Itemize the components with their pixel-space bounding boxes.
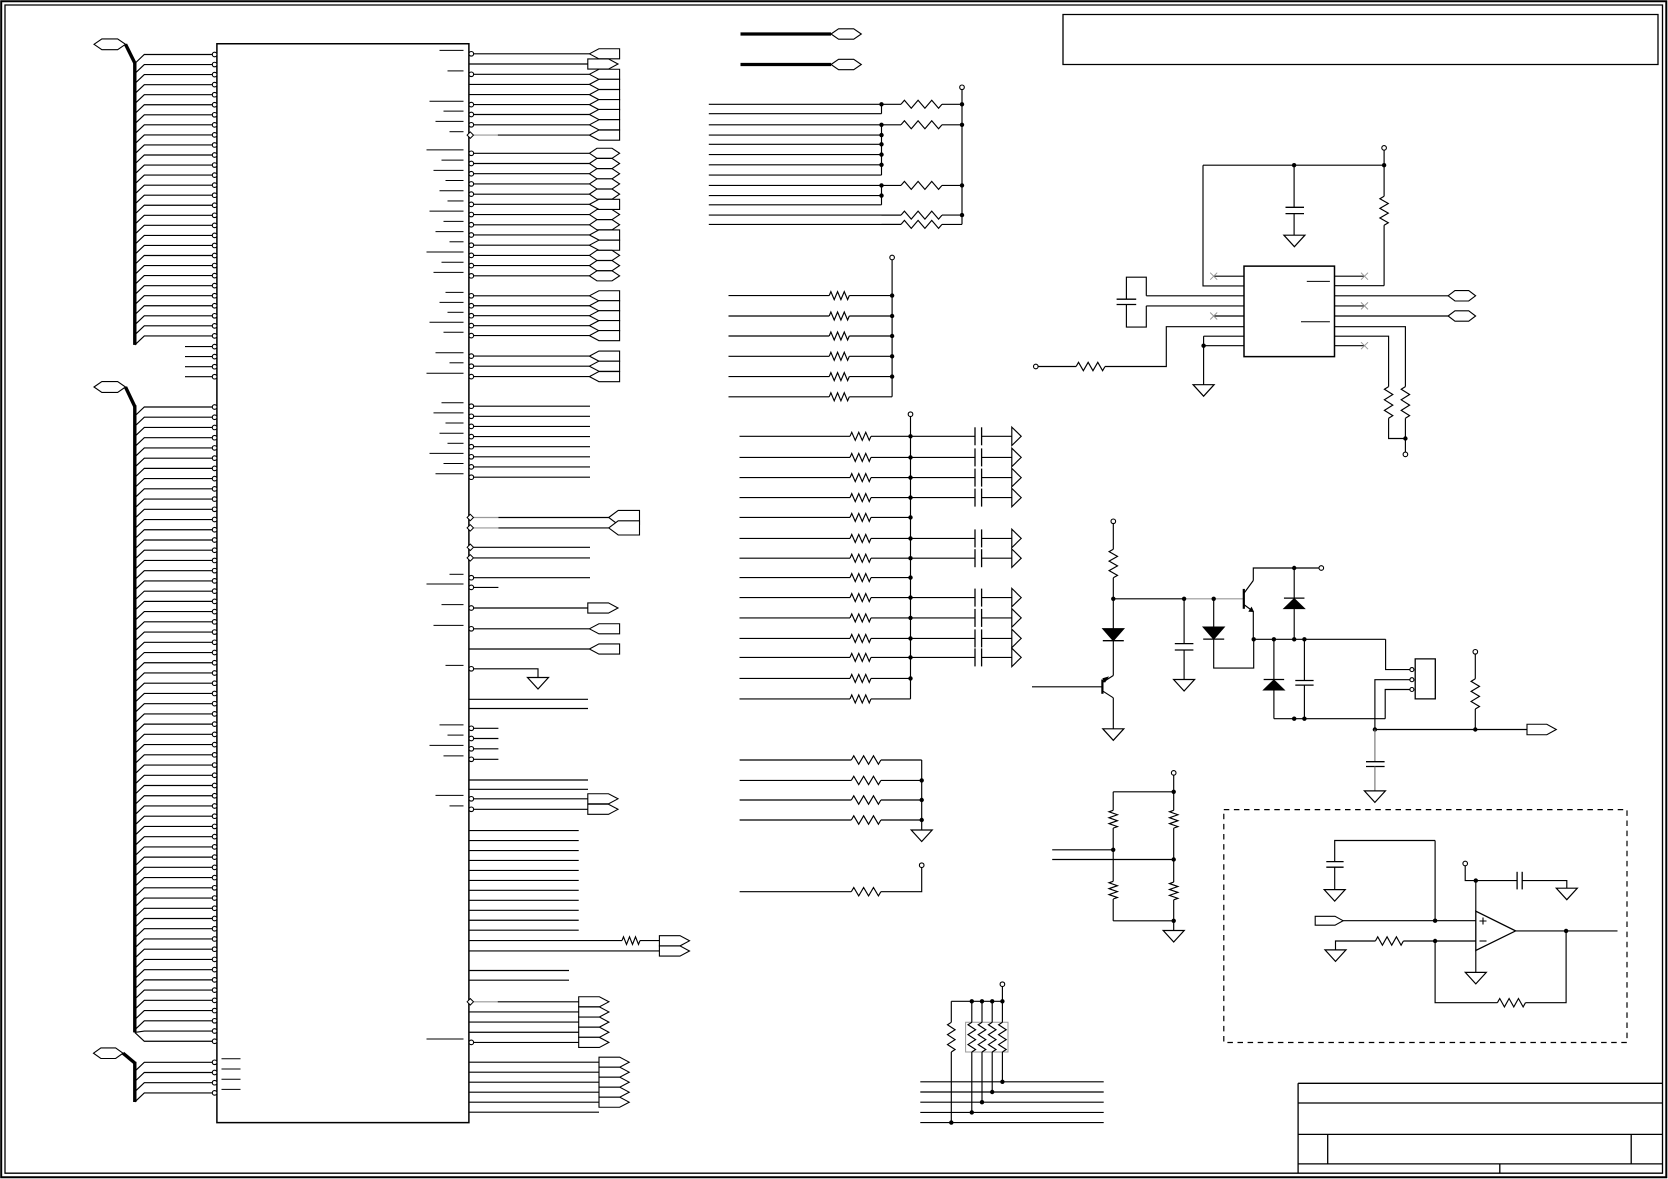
pin stub inner U2 bbox=[1301, 321, 1330, 323]
pin stub nc bbox=[1214, 315, 1244, 317]
bus flag bbox=[1448, 311, 1476, 321]
pin label stub bbox=[446, 664, 464, 666]
wire pin out bbox=[474, 415, 590, 417]
pin label stub bbox=[427, 251, 464, 253]
opto pin1 bbox=[1410, 668, 1414, 672]
junction bbox=[879, 152, 883, 156]
signal flag bbox=[589, 240, 619, 250]
wire bbox=[849, 355, 892, 357]
wire bbox=[982, 597, 1012, 599]
wire pin bbox=[135, 653, 213, 662]
bottom rail bbox=[1274, 718, 1385, 720]
signal flag bbox=[589, 179, 619, 189]
junction bbox=[890, 293, 894, 297]
junction bbox=[1111, 597, 1115, 601]
wire pin bbox=[135, 612, 213, 621]
resistor bbox=[851, 816, 881, 824]
wire bbox=[740, 656, 851, 658]
pin label stub bbox=[436, 231, 464, 233]
opto pin3 bbox=[1410, 688, 1414, 692]
bus flag bbox=[1448, 291, 1476, 301]
node wire bbox=[1113, 598, 1184, 600]
wire pin bbox=[135, 266, 213, 275]
wire bbox=[709, 195, 882, 197]
wire pin out bbox=[469, 919, 579, 921]
signal flag bbox=[589, 109, 619, 119]
wire pin out bbox=[474, 355, 590, 357]
wire pin bbox=[135, 734, 213, 743]
terminal bbox=[1111, 519, 1116, 524]
ground bbox=[1284, 235, 1305, 247]
junction bbox=[879, 193, 883, 197]
junction bbox=[1292, 163, 1296, 167]
wire bbox=[1293, 165, 1295, 207]
wire pin out bbox=[474, 244, 590, 246]
wire pin out bbox=[469, 1061, 599, 1063]
wire pin out bbox=[469, 1091, 599, 1093]
wire pin bbox=[135, 632, 213, 641]
pin label stub bbox=[430, 321, 464, 323]
rail bbox=[910, 416, 912, 699]
pin stub inner bbox=[222, 1058, 241, 1060]
wire pin out bbox=[474, 265, 590, 267]
wire pin out resistor R20 bbox=[469, 940, 622, 942]
wire pin out bbox=[474, 607, 588, 609]
signal flag bbox=[589, 199, 619, 209]
signal flag out bbox=[579, 997, 609, 1007]
pin label stub bbox=[427, 583, 464, 585]
junction bbox=[970, 999, 974, 1003]
node wire gray bbox=[1184, 598, 1244, 600]
signal flag bbox=[589, 250, 619, 260]
wire bbox=[1335, 285, 1385, 287]
wire pin out bbox=[474, 325, 590, 327]
wire bbox=[920, 1081, 1103, 1083]
wire bbox=[1475, 951, 1477, 973]
wire pin bbox=[135, 581, 213, 590]
bus B bbox=[133, 405, 136, 1032]
arrow terminator bbox=[1012, 588, 1021, 606]
wire pin out bbox=[469, 648, 590, 650]
ground bbox=[1465, 972, 1486, 984]
arrow terminator bbox=[1012, 609, 1021, 627]
bus flag bbox=[609, 521, 640, 535]
signal flag bbox=[589, 624, 619, 634]
ground bbox=[1163, 931, 1184, 943]
pin label stub bbox=[446, 180, 464, 182]
resistor bbox=[850, 574, 871, 582]
wire pin bbox=[135, 276, 213, 285]
capacitor C2 bbox=[1183, 599, 1185, 644]
wire bbox=[709, 103, 882, 105]
wire bbox=[740, 779, 852, 781]
wire pin bbox=[135, 816, 213, 825]
resistor discrete bbox=[950, 1001, 952, 1022]
wire pin bbox=[135, 125, 213, 134]
pin label stub bbox=[434, 169, 464, 171]
pin label stub bbox=[430, 100, 464, 102]
wire pin bbox=[135, 714, 213, 723]
node wire bbox=[1254, 638, 1386, 640]
wire bbox=[982, 537, 1012, 539]
wire pin out bbox=[474, 436, 590, 438]
wire pin bbox=[135, 745, 213, 754]
wire pin bbox=[135, 806, 213, 815]
junction bbox=[1433, 919, 1437, 923]
pin stub nc bbox=[1335, 345, 1365, 347]
wire bbox=[1476, 880, 1517, 882]
pin label stub bbox=[436, 473, 464, 475]
wire pin bbox=[135, 1032, 213, 1041]
wire pin out bbox=[474, 456, 590, 458]
terminal bbox=[1171, 771, 1176, 776]
resistor R11 bbox=[1375, 937, 1403, 945]
wire pin bbox=[135, 878, 213, 887]
junction bbox=[980, 1100, 984, 1104]
wire bbox=[1203, 346, 1205, 385]
wire bbox=[920, 1111, 1103, 1113]
wire bbox=[709, 184, 882, 186]
signal flag bbox=[589, 49, 619, 59]
wire bbox=[1173, 775, 1175, 792]
wire bbox=[1293, 214, 1295, 236]
junction bbox=[1403, 436, 1407, 440]
wire bbox=[729, 295, 830, 297]
pin label stub bbox=[450, 241, 464, 243]
resistor bbox=[991, 1001, 993, 1022]
wire pin bbox=[1204, 345, 1244, 347]
junction bbox=[908, 536, 912, 540]
wire pin bbox=[135, 75, 213, 84]
no-connect X bbox=[1210, 273, 1217, 280]
resistor bbox=[850, 474, 871, 482]
resistor bbox=[850, 554, 871, 562]
wire pin out bbox=[469, 1081, 599, 1083]
bus A entry bbox=[126, 44, 135, 63]
wire pin bbox=[135, 642, 213, 651]
wire pin out bbox=[474, 628, 590, 630]
wire bbox=[849, 335, 892, 337]
wire pin bbox=[135, 970, 213, 979]
wire pin bbox=[135, 55, 213, 64]
junction bbox=[908, 636, 912, 640]
wire pin out bbox=[474, 365, 590, 367]
wire pin out bbox=[474, 203, 590, 205]
signal flag out bbox=[579, 1007, 609, 1017]
junction bbox=[1564, 929, 1568, 933]
signal flag bbox=[589, 361, 619, 371]
wire inv bbox=[1336, 941, 1376, 950]
wire pin out bbox=[474, 727, 499, 729]
signal flag bbox=[589, 220, 619, 230]
wire pin bbox=[135, 704, 213, 713]
wire pin bbox=[135, 591, 213, 600]
wire pin bbox=[135, 990, 213, 999]
wire bbox=[729, 396, 830, 398]
capacitor C6 bbox=[1516, 872, 1518, 890]
wire pin out bbox=[469, 1011, 579, 1013]
wire pin out bbox=[474, 798, 588, 800]
resistor R8 bbox=[1112, 850, 1114, 882]
resistor pack box bbox=[966, 1022, 1008, 1052]
pin label stub bbox=[448, 200, 464, 202]
wire bbox=[911, 597, 976, 599]
wire pin bbox=[135, 489, 213, 498]
wire bbox=[709, 174, 882, 176]
wire pin bbox=[135, 939, 213, 948]
wire pin bbox=[135, 775, 213, 784]
resistor bbox=[882, 184, 902, 186]
wire pin bbox=[135, 949, 213, 958]
wire pin bbox=[135, 215, 213, 224]
wire pin out bbox=[474, 586, 499, 588]
capacitor C5 bbox=[1335, 841, 1435, 862]
signal flag in bbox=[1315, 916, 1343, 925]
junction bus segment bbox=[881, 104, 883, 113]
wire pin bbox=[135, 1011, 213, 1020]
junction bbox=[1272, 637, 1276, 641]
resistor R9 bbox=[1173, 792, 1175, 811]
junction bbox=[879, 163, 883, 167]
signal flag bbox=[589, 351, 619, 361]
wire pin bbox=[135, 205, 213, 214]
wire bbox=[982, 557, 1012, 559]
no-connect X bbox=[1361, 302, 1368, 309]
pin label stub bbox=[434, 624, 464, 626]
wire pin bbox=[135, 427, 213, 436]
wire pin bbox=[135, 1000, 213, 1009]
wire pin out bbox=[469, 779, 588, 781]
wire pin out bbox=[474, 466, 590, 468]
pin label stub bbox=[440, 49, 464, 51]
wire pin out bbox=[474, 224, 590, 226]
wire pin out bbox=[469, 1021, 579, 1023]
no-connect X bbox=[1210, 313, 1217, 320]
wire bbox=[709, 214, 901, 216]
resistor bbox=[850, 453, 871, 461]
wire bbox=[729, 335, 830, 337]
junction bbox=[949, 1120, 953, 1124]
wire bbox=[871, 477, 911, 479]
pullup rail bbox=[891, 260, 893, 397]
pin label stub bbox=[442, 604, 464, 606]
pin label stub bbox=[444, 463, 464, 465]
wire pin bbox=[135, 724, 213, 733]
wire pin out bbox=[474, 254, 590, 256]
junction bbox=[890, 314, 894, 318]
IC U2 body bbox=[1244, 266, 1335, 357]
terminal bbox=[1403, 452, 1408, 457]
wire bbox=[849, 376, 892, 378]
bus A bbox=[133, 62, 136, 345]
signal flag bbox=[589, 148, 619, 158]
wire bbox=[1465, 866, 1476, 881]
resistor bbox=[851, 776, 881, 784]
junction bbox=[970, 1110, 974, 1114]
signal flag bbox=[589, 90, 619, 100]
junction bbox=[1252, 637, 1256, 641]
terminal bbox=[908, 412, 913, 417]
wire pin bbox=[1204, 335, 1244, 337]
wire bbox=[849, 295, 892, 297]
bus flag bbox=[831, 59, 861, 69]
wire pin bbox=[135, 520, 213, 529]
resistor bbox=[851, 888, 881, 896]
pin stub inner U2 bbox=[1307, 280, 1330, 282]
resistor bbox=[850, 513, 871, 521]
signal flag bbox=[589, 69, 619, 79]
opto pin2 bbox=[1410, 678, 1414, 682]
capacitor C4 bbox=[1374, 730, 1376, 762]
pin stub nc bbox=[1214, 275, 1244, 277]
wire pin bbox=[135, 888, 213, 897]
signal flag out bbox=[579, 1027, 609, 1037]
arrow terminator bbox=[1012, 648, 1021, 666]
signal flag out bbox=[1527, 724, 1556, 735]
wire pin bbox=[135, 145, 213, 154]
wire pin bbox=[135, 195, 213, 204]
resistor bbox=[1001, 1001, 1003, 1022]
wire pin out bbox=[474, 295, 590, 297]
junction bbox=[1474, 878, 1478, 882]
ground bbox=[1193, 385, 1214, 397]
signal flag bbox=[589, 158, 619, 168]
pin label stub bbox=[436, 352, 464, 354]
signal flag bbox=[589, 169, 619, 179]
signal flag bbox=[589, 271, 619, 281]
resistor R1 bbox=[1383, 165, 1385, 196]
pin label stub bbox=[434, 271, 464, 273]
capacitor bbox=[974, 609, 976, 627]
wire pin out bbox=[474, 163, 590, 165]
wire pin bbox=[135, 165, 213, 174]
wire bbox=[709, 204, 882, 206]
wire bbox=[881, 799, 922, 801]
wire pin bbox=[135, 185, 213, 194]
junction bbox=[908, 616, 912, 620]
wire pin out bbox=[474, 748, 499, 750]
junction bbox=[908, 676, 912, 680]
pin label stub bbox=[444, 220, 464, 222]
wire bbox=[709, 124, 882, 126]
wire pin bbox=[135, 1083, 213, 1092]
wire bbox=[1475, 881, 1477, 912]
wire pin bbox=[135, 673, 213, 682]
junction bbox=[890, 354, 894, 358]
capacitor bbox=[974, 489, 976, 507]
wire pin out bbox=[474, 124, 590, 126]
signal flag bbox=[589, 321, 619, 331]
pin stub inner bbox=[222, 1088, 241, 1090]
signal flag bbox=[589, 130, 619, 140]
op-amp U4 bbox=[1476, 911, 1516, 950]
wire bbox=[729, 376, 830, 378]
wire pin out bbox=[474, 73, 590, 75]
dashed boundary box bbox=[1224, 810, 1627, 1043]
pin stub inner bbox=[222, 1078, 241, 1080]
wire pin out bbox=[469, 909, 579, 911]
junction bbox=[980, 999, 984, 1003]
wire pin out bbox=[469, 859, 579, 861]
wire pin bbox=[1146, 305, 1244, 307]
wire pin out bbox=[469, 879, 579, 881]
wire pin bbox=[135, 95, 213, 104]
resistor R6 bbox=[1474, 654, 1476, 679]
signal flag bbox=[589, 291, 619, 301]
terminal VCC bbox=[1382, 146, 1387, 151]
wire pin out bbox=[474, 577, 590, 579]
wire pin bbox=[135, 135, 213, 144]
junction bbox=[908, 515, 912, 519]
pin label stub bbox=[440, 724, 464, 726]
junction bbox=[879, 133, 883, 137]
wire pin bbox=[135, 847, 213, 856]
wire emitter bbox=[1252, 612, 1254, 640]
wire pin out bbox=[474, 114, 590, 116]
junction bbox=[890, 334, 894, 338]
pin label stub bbox=[440, 190, 464, 192]
wire pin bbox=[135, 468, 213, 477]
wire pin bbox=[135, 571, 213, 580]
junction bbox=[908, 556, 912, 560]
optocoupler U3 body bbox=[1415, 659, 1435, 699]
wire pin bbox=[135, 929, 213, 938]
wire bbox=[740, 516, 851, 518]
resistor bbox=[850, 594, 871, 602]
resistor R2 bbox=[1076, 362, 1105, 370]
wire bbox=[881, 819, 922, 821]
pin label stub bbox=[427, 149, 464, 151]
wire pin out bbox=[469, 698, 588, 700]
resistor bbox=[850, 534, 871, 542]
wire pin bbox=[135, 85, 213, 94]
wire pin out bbox=[469, 708, 588, 710]
wire pin bbox=[135, 550, 213, 559]
wire pin bbox=[135, 458, 213, 467]
junction bbox=[1292, 566, 1296, 570]
wire pin bbox=[135, 1093, 213, 1102]
wire bbox=[911, 637, 976, 639]
arrow terminator bbox=[1012, 629, 1021, 647]
resistor bbox=[829, 332, 849, 340]
wire bbox=[911, 537, 976, 539]
wire bbox=[920, 1091, 1103, 1093]
ground bbox=[1325, 950, 1346, 962]
signal flag bbox=[589, 100, 619, 110]
junction bbox=[1172, 857, 1176, 861]
wire pin bbox=[135, 765, 213, 774]
wire bbox=[911, 656, 976, 658]
wire pin stub bbox=[185, 366, 212, 368]
signal flag out bbox=[599, 1087, 629, 1097]
junction bbox=[908, 655, 912, 659]
rail bbox=[921, 760, 923, 830]
wire bbox=[871, 637, 911, 639]
wire pin out bbox=[474, 152, 590, 154]
wire pin bbox=[135, 959, 213, 968]
wire pin bbox=[135, 316, 213, 325]
resistor bbox=[851, 796, 881, 804]
resistor bbox=[981, 1001, 983, 1022]
wire bbox=[871, 677, 911, 679]
wire pin bbox=[135, 1031, 213, 1032]
wire pin out bbox=[474, 214, 590, 216]
signal flag out bbox=[588, 804, 618, 814]
wire pin bbox=[135, 919, 213, 928]
resistor bbox=[829, 373, 849, 381]
title block divider v1 bbox=[1327, 1134, 1329, 1164]
wire pin out bbox=[469, 899, 579, 901]
